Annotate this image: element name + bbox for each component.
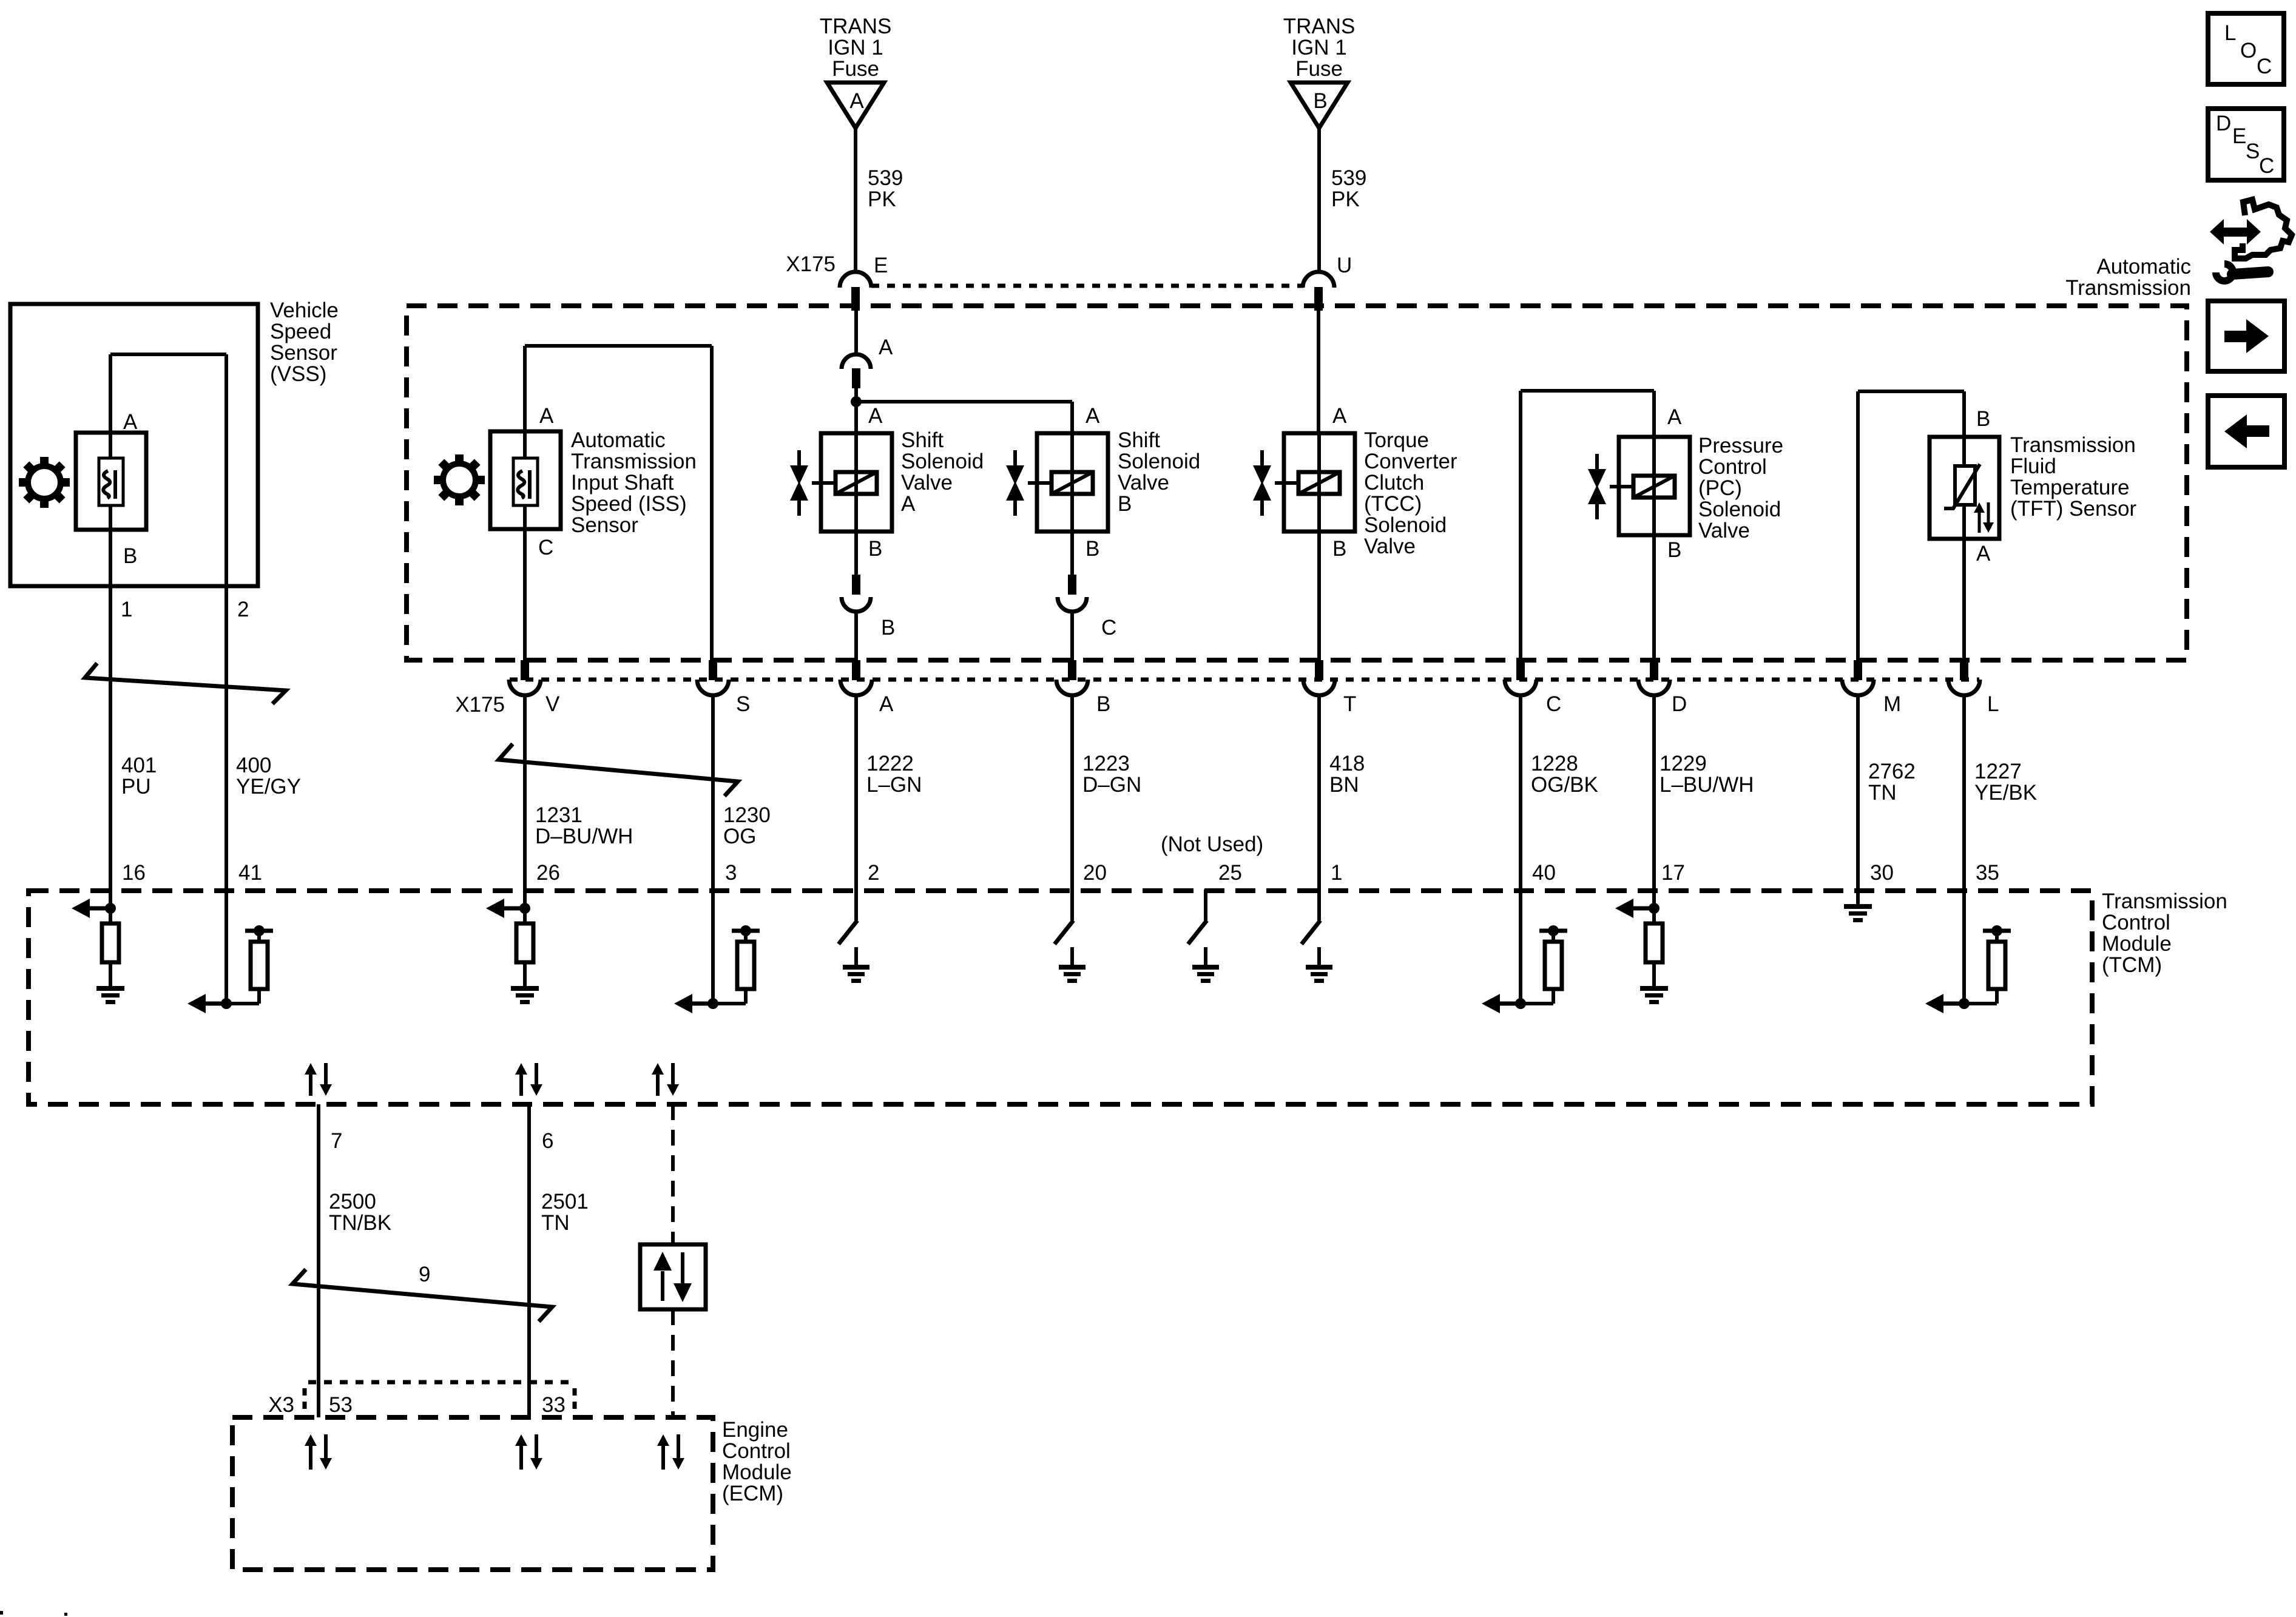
- svg-text:Clutch: Clutch: [1364, 471, 1424, 495]
- svg-text:Fluid: Fluid: [2010, 454, 2056, 478]
- svg-text:Sensor: Sensor: [270, 341, 337, 365]
- svg-text:L: L: [2224, 21, 2236, 45]
- svg-text:2: 2: [868, 861, 879, 885]
- svg-text:418: 418: [1329, 752, 1365, 775]
- svg-text:1: 1: [121, 598, 132, 621]
- svg-text:9: 9: [419, 1263, 430, 1286]
- svg-text:OG/BK: OG/BK: [1531, 773, 1598, 797]
- svg-text:Fuse: Fuse: [1295, 57, 1343, 81]
- svg-text:Solenoid: Solenoid: [901, 450, 984, 473]
- svg-text:A: A: [123, 410, 138, 434]
- svg-text:D: D: [2216, 112, 2231, 135]
- svg-text:M: M: [1883, 692, 1901, 716]
- svg-text:IGN 1: IGN 1: [1291, 36, 1346, 59]
- svg-text:D: D: [1672, 692, 1687, 716]
- svg-text:X3: X3: [268, 1393, 294, 1417]
- svg-text:C: C: [538, 536, 553, 559]
- svg-text:B: B: [1118, 492, 1132, 516]
- svg-text:35: 35: [1976, 861, 1999, 885]
- svg-text:B: B: [1096, 692, 1110, 716]
- svg-text:1227: 1227: [1974, 760, 2022, 783]
- svg-text:26: 26: [536, 861, 560, 885]
- svg-text:539: 539: [1331, 166, 1366, 190]
- svg-text:1231: 1231: [535, 803, 582, 827]
- svg-text:Engine: Engine: [722, 1418, 788, 1442]
- svg-text:Converter: Converter: [1364, 450, 1457, 473]
- svg-text:(TCM): (TCM): [2102, 953, 2162, 977]
- svg-text:(Not Used): (Not Used): [1161, 832, 1263, 856]
- svg-text:A: A: [1332, 404, 1347, 428]
- svg-text:Shift: Shift: [1118, 428, 1160, 452]
- svg-text:33: 33: [542, 1393, 566, 1417]
- svg-text:PK: PK: [1331, 187, 1360, 211]
- svg-text:1229: 1229: [1660, 752, 1707, 775]
- svg-text:Torque: Torque: [1364, 428, 1429, 452]
- svg-text:B: B: [1976, 407, 1990, 431]
- svg-text:B: B: [868, 537, 882, 561]
- svg-text:YE/BK: YE/BK: [1974, 781, 2037, 805]
- svg-text:Vehicle: Vehicle: [270, 299, 339, 322]
- svg-text:1223: 1223: [1082, 752, 1130, 775]
- svg-text:Transmission: Transmission: [571, 450, 697, 473]
- svg-text:Control: Control: [2102, 911, 2170, 934]
- svg-text:L: L: [1987, 692, 1999, 716]
- svg-text:E: E: [2232, 124, 2246, 148]
- svg-text:E: E: [874, 254, 888, 277]
- svg-text:6: 6: [542, 1129, 553, 1153]
- svg-text:(ECM): (ECM): [722, 1482, 783, 1505]
- svg-text:Temperature: Temperature: [2010, 476, 2129, 499]
- svg-text:25: 25: [1218, 861, 1242, 885]
- svg-text:Module: Module: [722, 1460, 792, 1484]
- svg-text:X175: X175: [786, 252, 836, 276]
- svg-text:A: A: [1086, 404, 1100, 428]
- svg-text:TN: TN: [541, 1211, 570, 1235]
- svg-text:400: 400: [236, 754, 271, 777]
- svg-text:Automatic: Automatic: [2096, 255, 2191, 279]
- svg-text:(VSS): (VSS): [270, 362, 326, 386]
- svg-text:Solenoid: Solenoid: [1698, 498, 1781, 521]
- svg-text:1: 1: [1331, 861, 1342, 885]
- svg-text:B: B: [1332, 537, 1346, 561]
- svg-text:TN: TN: [1868, 781, 1897, 805]
- svg-text:A: A: [1667, 405, 1682, 429]
- svg-text:YE/GY: YE/GY: [236, 775, 301, 798]
- svg-text:O: O: [2240, 39, 2257, 62]
- svg-text:A: A: [849, 89, 864, 113]
- svg-text:L–BU/WH: L–BU/WH: [1660, 773, 1754, 797]
- svg-text:IGN 1: IGN 1: [828, 36, 883, 59]
- svg-text:A: A: [901, 492, 916, 516]
- svg-text:B: B: [1313, 89, 1327, 113]
- svg-text:Sensor: Sensor: [571, 513, 638, 537]
- svg-text:3: 3: [725, 861, 737, 885]
- svg-text:1228: 1228: [1531, 752, 1578, 775]
- svg-text:Input Shaft: Input Shaft: [571, 471, 674, 495]
- svg-text:S: S: [736, 692, 750, 716]
- svg-text:20: 20: [1083, 861, 1107, 885]
- svg-text:Speed (ISS): Speed (ISS): [571, 492, 687, 516]
- svg-text:C: C: [1101, 616, 1116, 640]
- svg-text:(TCC): (TCC): [1364, 492, 1422, 516]
- svg-text:B: B: [123, 544, 137, 568]
- svg-text:Automatic: Automatic: [571, 428, 666, 452]
- svg-text:2: 2: [237, 598, 249, 621]
- svg-text:PK: PK: [868, 187, 896, 211]
- svg-text:1222: 1222: [866, 752, 914, 775]
- svg-text:Speed: Speed: [270, 320, 331, 343]
- svg-text:B: B: [881, 616, 895, 640]
- svg-text:Valve: Valve: [1698, 519, 1750, 542]
- svg-text:A: A: [868, 404, 883, 428]
- svg-text:40: 40: [1532, 861, 1556, 885]
- svg-text:Valve: Valve: [1364, 535, 1416, 558]
- svg-text:Solenoid: Solenoid: [1118, 450, 1200, 473]
- svg-text:TN/BK: TN/BK: [329, 1211, 391, 1235]
- svg-text:539: 539: [868, 166, 903, 190]
- svg-text:D–GN: D–GN: [1082, 773, 1141, 797]
- svg-text:(PC): (PC): [1698, 476, 1742, 500]
- svg-text:OG: OG: [723, 825, 756, 848]
- svg-text:16: 16: [122, 861, 146, 885]
- svg-text:PU: PU: [121, 775, 151, 798]
- svg-text:2762: 2762: [1868, 760, 1916, 783]
- svg-text:Valve: Valve: [1118, 471, 1169, 495]
- svg-text:D–BU/WH: D–BU/WH: [535, 825, 633, 848]
- svg-text:L–GN: L–GN: [866, 773, 922, 797]
- svg-text:A: A: [539, 404, 554, 428]
- svg-text:41: 41: [238, 861, 262, 885]
- svg-text:2500: 2500: [329, 1190, 376, 1214]
- svg-text:V: V: [545, 692, 560, 716]
- svg-text:Control: Control: [722, 1439, 791, 1463]
- svg-text:A: A: [879, 336, 893, 359]
- svg-text:TRANS: TRANS: [1283, 15, 1356, 38]
- svg-text:A: A: [879, 692, 894, 716]
- svg-text:Module: Module: [2102, 932, 2172, 956]
- svg-text:B: B: [1667, 538, 1681, 562]
- svg-text:1230: 1230: [723, 803, 771, 827]
- svg-text:X175: X175: [455, 693, 505, 717]
- svg-text:53: 53: [329, 1393, 353, 1417]
- svg-text:Transmission: Transmission: [2010, 433, 2136, 457]
- svg-text:TRANS: TRANS: [820, 15, 892, 38]
- svg-text:(TFT) Sensor: (TFT) Sensor: [2010, 497, 2136, 521]
- svg-text:2501: 2501: [541, 1190, 589, 1214]
- svg-text:17: 17: [1661, 861, 1685, 885]
- svg-text:B: B: [1086, 537, 1099, 561]
- svg-text:7: 7: [331, 1129, 342, 1153]
- svg-text:C: C: [1546, 692, 1561, 716]
- svg-text:Valve: Valve: [901, 471, 953, 495]
- svg-text:BN: BN: [1329, 773, 1359, 797]
- svg-text:Transmission: Transmission: [2065, 276, 2191, 300]
- svg-text:Transmission: Transmission: [2102, 890, 2227, 913]
- svg-text:Control: Control: [1698, 455, 1767, 479]
- svg-text:30: 30: [1870, 861, 1894, 885]
- svg-text:T: T: [1343, 692, 1356, 716]
- svg-text:401: 401: [121, 754, 157, 777]
- svg-text:U: U: [1337, 254, 1352, 277]
- svg-text:S: S: [2246, 140, 2260, 163]
- svg-text:Solenoid: Solenoid: [1364, 513, 1447, 537]
- svg-text:Pressure: Pressure: [1698, 434, 1783, 457]
- svg-text:Shift: Shift: [901, 428, 944, 452]
- svg-text:Fuse: Fuse: [832, 57, 879, 81]
- svg-text:C: C: [2259, 154, 2274, 178]
- svg-text:C: C: [2257, 55, 2272, 78]
- svg-text:A: A: [1976, 542, 1991, 565]
